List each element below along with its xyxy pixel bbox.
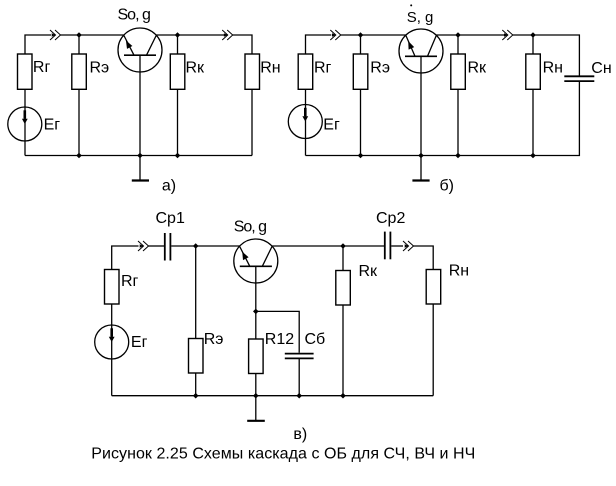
wire (c) base down to node	[255, 266, 257, 311]
svg-text:Rэ: Rэ	[370, 60, 390, 77]
label Rk (b)	[468, 59, 488, 76]
svg-text:Rг: Rг	[314, 60, 332, 77]
node (b) bottom Rk	[455, 153, 461, 159]
wire (a) Rk bottom	[177, 89, 179, 155]
svg-text:Рисунок 2.25 Схемы каскада с О: Рисунок 2.25 Схемы каскада с ОБ для СЧ, …	[91, 446, 475, 463]
label Re (b)	[370, 60, 390, 77]
svg-text:So, g: So, g	[118, 7, 150, 24]
label Cp1	[156, 210, 185, 227]
node (a) emitter net	[76, 32, 82, 38]
arrow output (a)	[222, 30, 233, 40]
svg-text:Ср2: Ср2	[376, 210, 405, 227]
wire (c) R12 bottom	[255, 374, 257, 396]
svg-text:R12: R12	[265, 331, 294, 348]
transistor Q (b)	[399, 29, 443, 73]
label a)	[162, 178, 176, 195]
label Eg (a)	[44, 117, 61, 134]
wire (b) top right to Cn corner	[513, 35, 580, 76]
label Rk (c)	[359, 263, 379, 280]
node (c) collector net	[340, 243, 346, 249]
wire (c) Rn bottom	[432, 304, 434, 396]
wire (b) top: arrow to transistor	[341, 34, 406, 36]
label b)	[440, 178, 455, 195]
label S,g (b)	[407, 4, 434, 25]
wire (a) Rn bottom	[251, 89, 253, 155]
node (a) collector net	[175, 32, 181, 38]
svg-text:Rк: Rк	[359, 263, 379, 280]
svg-text:Rн: Rн	[543, 60, 563, 77]
arrow output (b)	[502, 30, 513, 40]
svg-text:б): б)	[440, 178, 455, 195]
wire (a) base to bottom	[139, 55, 141, 155]
node (b) collector net	[455, 32, 461, 38]
capacitor Cp1	[165, 233, 171, 261]
resistor Rg (b)	[298, 54, 313, 89]
label Re (a)	[90, 59, 110, 76]
wire (a) top: arrow to transistor	[61, 34, 124, 36]
wire (a) Re bottom	[78, 89, 80, 155]
svg-text:Сн: Сн	[591, 60, 611, 77]
wire (c) Rk bottom	[342, 305, 344, 396]
transistor Q (c)	[234, 239, 278, 283]
wire (b) Rk bottom	[457, 89, 459, 155]
svg-text:Ег: Ег	[323, 117, 340, 134]
label R12 (c)	[265, 331, 294, 348]
label Rn (c)	[449, 263, 469, 280]
wire (a) top right corner into Rn	[233, 35, 252, 54]
svg-text:Ег: Ег	[131, 334, 148, 351]
wire (c) Cb bottom	[298, 358, 300, 395]
node (a) bottom Rk	[175, 153, 181, 159]
wire (a) Re top	[78, 35, 80, 54]
label Rn (b)	[543, 60, 563, 77]
node (a) bottom Re	[76, 153, 82, 159]
label Cn (b)	[591, 60, 611, 77]
wire (b) Rk top	[457, 35, 459, 54]
label Eg (b)	[323, 117, 340, 134]
node (c) bottom Cb	[296, 393, 302, 399]
resistor Rn (a)	[245, 54, 260, 89]
svg-text:Rн: Rн	[449, 263, 469, 280]
svg-text:Rг: Rг	[33, 59, 51, 76]
wire (a) top-left segment	[25, 35, 51, 54]
ground (b)	[412, 156, 429, 181]
source Eg (b)	[288, 105, 322, 139]
resistor Rn (c)	[426, 270, 441, 305]
wire (c) top-left segment	[112, 246, 139, 270]
node (b) bottom Rn	[530, 153, 536, 159]
source Eg (c)	[95, 325, 129, 359]
wire (c) arrow to Cp1	[149, 245, 165, 247]
wire (b) Re bottom	[360, 89, 362, 155]
wire (b) Rn bottom	[532, 89, 534, 155]
wire (b) base to bottom	[420, 56, 422, 155]
label Cb (c)	[305, 331, 326, 348]
svg-text:в): в)	[293, 426, 307, 443]
label Rg (b)	[314, 60, 332, 77]
wire (c) bottom rail	[112, 395, 434, 397]
wire (a) bottom rail	[25, 155, 252, 157]
wire (b) Cn bottom	[306, 81, 580, 155]
wire (c) Rk top	[342, 246, 344, 271]
svg-text:Rг: Rг	[121, 273, 139, 290]
node (c) emitter net	[193, 243, 199, 249]
wire (a) Rk top	[177, 35, 179, 54]
arrow input (c)	[138, 241, 149, 251]
svg-text:Сб: Сб	[305, 331, 326, 348]
capacitor Cp2	[385, 232, 391, 260]
svg-text:Rк: Rк	[468, 59, 488, 76]
resistor Rg (c)	[105, 270, 120, 305]
source Eg (a)	[8, 107, 42, 141]
label Rg (c)	[121, 273, 139, 290]
resistor Rk (a)	[170, 54, 185, 89]
wire (b) Rn top	[532, 35, 534, 54]
wire (c) Re bottom	[195, 373, 197, 396]
node (b) bottom Re	[358, 153, 364, 159]
svg-text:Rэ: Rэ	[90, 59, 110, 76]
resistor Rk (c)	[336, 271, 351, 306]
ground (c)	[247, 396, 265, 421]
label v)	[293, 426, 307, 443]
wire (a) Rg to Eg to bottom	[24, 89, 26, 155]
wire (a) top: transistor to Rn corner	[156, 34, 228, 36]
resistor Re (b)	[353, 54, 368, 89]
node (c) bottom Re	[193, 393, 199, 399]
resistor R12 (c)	[249, 339, 264, 374]
node (c) base split	[253, 309, 259, 315]
node (a) bottom base	[137, 153, 143, 159]
wire (c) transistor to Cp2	[272, 245, 384, 247]
arrow input (a)	[50, 30, 61, 40]
wire (c) node to Cb branch	[256, 311, 299, 352]
label Cp2	[376, 210, 405, 227]
wire (b) Re top	[360, 35, 362, 54]
svg-text:So, g: So, g	[234, 218, 266, 235]
node (b) Rn top	[530, 32, 536, 38]
wire (c) Rg to Eg to bottom	[111, 304, 113, 396]
capacitor Cb (c)	[285, 354, 314, 359]
label So,g (c)	[234, 218, 266, 235]
label Eg (c)	[131, 334, 148, 351]
arrow output (c)	[403, 241, 414, 251]
wire (c) node to Re	[195, 246, 197, 339]
ground (a)	[132, 156, 149, 181]
wire (c) node to R12	[255, 311, 257, 339]
label So,g (a)	[118, 7, 150, 24]
svg-text:Rк: Rк	[186, 59, 206, 76]
svg-text:S, g: S, g	[407, 9, 434, 26]
svg-text:Ср1: Ср1	[156, 210, 185, 227]
label Re (c)	[204, 331, 224, 348]
node (b) emitter net	[358, 32, 364, 38]
label Rk (a)	[186, 59, 206, 76]
label Rn (a)	[260, 60, 280, 77]
resistor Re (a)	[72, 54, 87, 89]
transistor Q (a)	[118, 28, 162, 72]
svg-text:Rэ: Rэ	[204, 331, 224, 348]
resistor Re (c)	[189, 339, 204, 374]
svg-text:Rн: Rн	[260, 60, 280, 77]
wire (b) top-left segment	[306, 35, 332, 54]
svg-text:а): а)	[162, 178, 176, 195]
node (b) bottom base	[418, 153, 424, 159]
svg-text:Ег: Ег	[44, 117, 61, 134]
arrow input (b)	[330, 30, 341, 40]
resistor Rg (a)	[18, 54, 33, 89]
wire (b) Rg to Eg to bottom	[305, 89, 307, 155]
label Rg (a)	[33, 59, 51, 76]
caption	[91, 446, 475, 463]
wire (c) top right corner into Rn	[414, 246, 434, 270]
resistor Rk (b)	[451, 54, 466, 89]
capacitor Cn (b)	[564, 76, 594, 81]
wire (b) top: transistor to arrow	[436, 34, 508, 36]
wire (c) Cp2 to arrow	[391, 245, 403, 247]
node (c) bottom Rk	[340, 393, 346, 399]
wire (c) Cp1 to transistor	[171, 245, 240, 247]
resistor Rn (b)	[526, 54, 541, 89]
node (c) bottom R12	[253, 393, 259, 399]
